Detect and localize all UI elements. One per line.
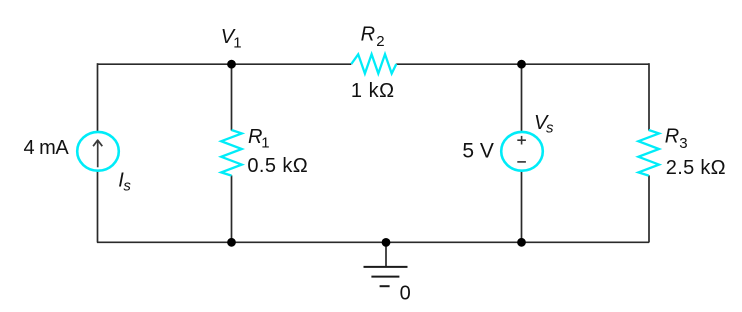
svg-text:0: 0 <box>400 282 411 304</box>
resistor R2 zigzag <box>351 54 396 73</box>
wire Vs branch lower <box>521 171 523 243</box>
wire left branch upper <box>97 63 99 131</box>
current source Is circle <box>77 132 119 171</box>
ground symbol <box>364 267 408 286</box>
wire top-left segment (node V1 to top-left corner and to R2) <box>97 63 351 65</box>
wire Vs branch upper <box>521 64 523 132</box>
node Vs-bottom junction dot <box>517 238 526 247</box>
wire left branch lower <box>97 171 99 243</box>
resistor R1 zigzag <box>221 130 242 176</box>
wire top-right segment (R2 to right corner) <box>396 63 649 65</box>
svg-text:0.5 kΩ: 0.5 kΩ <box>247 155 308 177</box>
wire right branch upper <box>648 63 650 130</box>
node ground junction dot <box>382 238 391 247</box>
svg-text:5 V: 5 V <box>462 140 494 163</box>
wire R1 branch upper <box>231 64 233 131</box>
svg-text:4 mA: 4 mA <box>24 137 70 159</box>
wire ground stub <box>385 242 387 267</box>
node V1 junction dot <box>227 60 236 69</box>
voltage source Vs circle <box>501 132 543 171</box>
voltage source minus sign <box>517 161 526 163</box>
wire right branch lower <box>648 175 650 242</box>
svg-text:1 kΩ: 1 kΩ <box>351 80 395 102</box>
wire bottom rail <box>97 241 649 243</box>
wire R1 branch lower <box>231 175 233 242</box>
current source Is arrow <box>93 140 102 167</box>
voltage source plus sign <box>517 136 526 145</box>
resistor R3 zigzag <box>638 130 659 176</box>
node R1-bottom junction dot <box>227 238 236 247</box>
node Vs-top junction dot <box>517 60 526 69</box>
svg-text:2.5 kΩ: 2.5 kΩ <box>666 157 726 179</box>
